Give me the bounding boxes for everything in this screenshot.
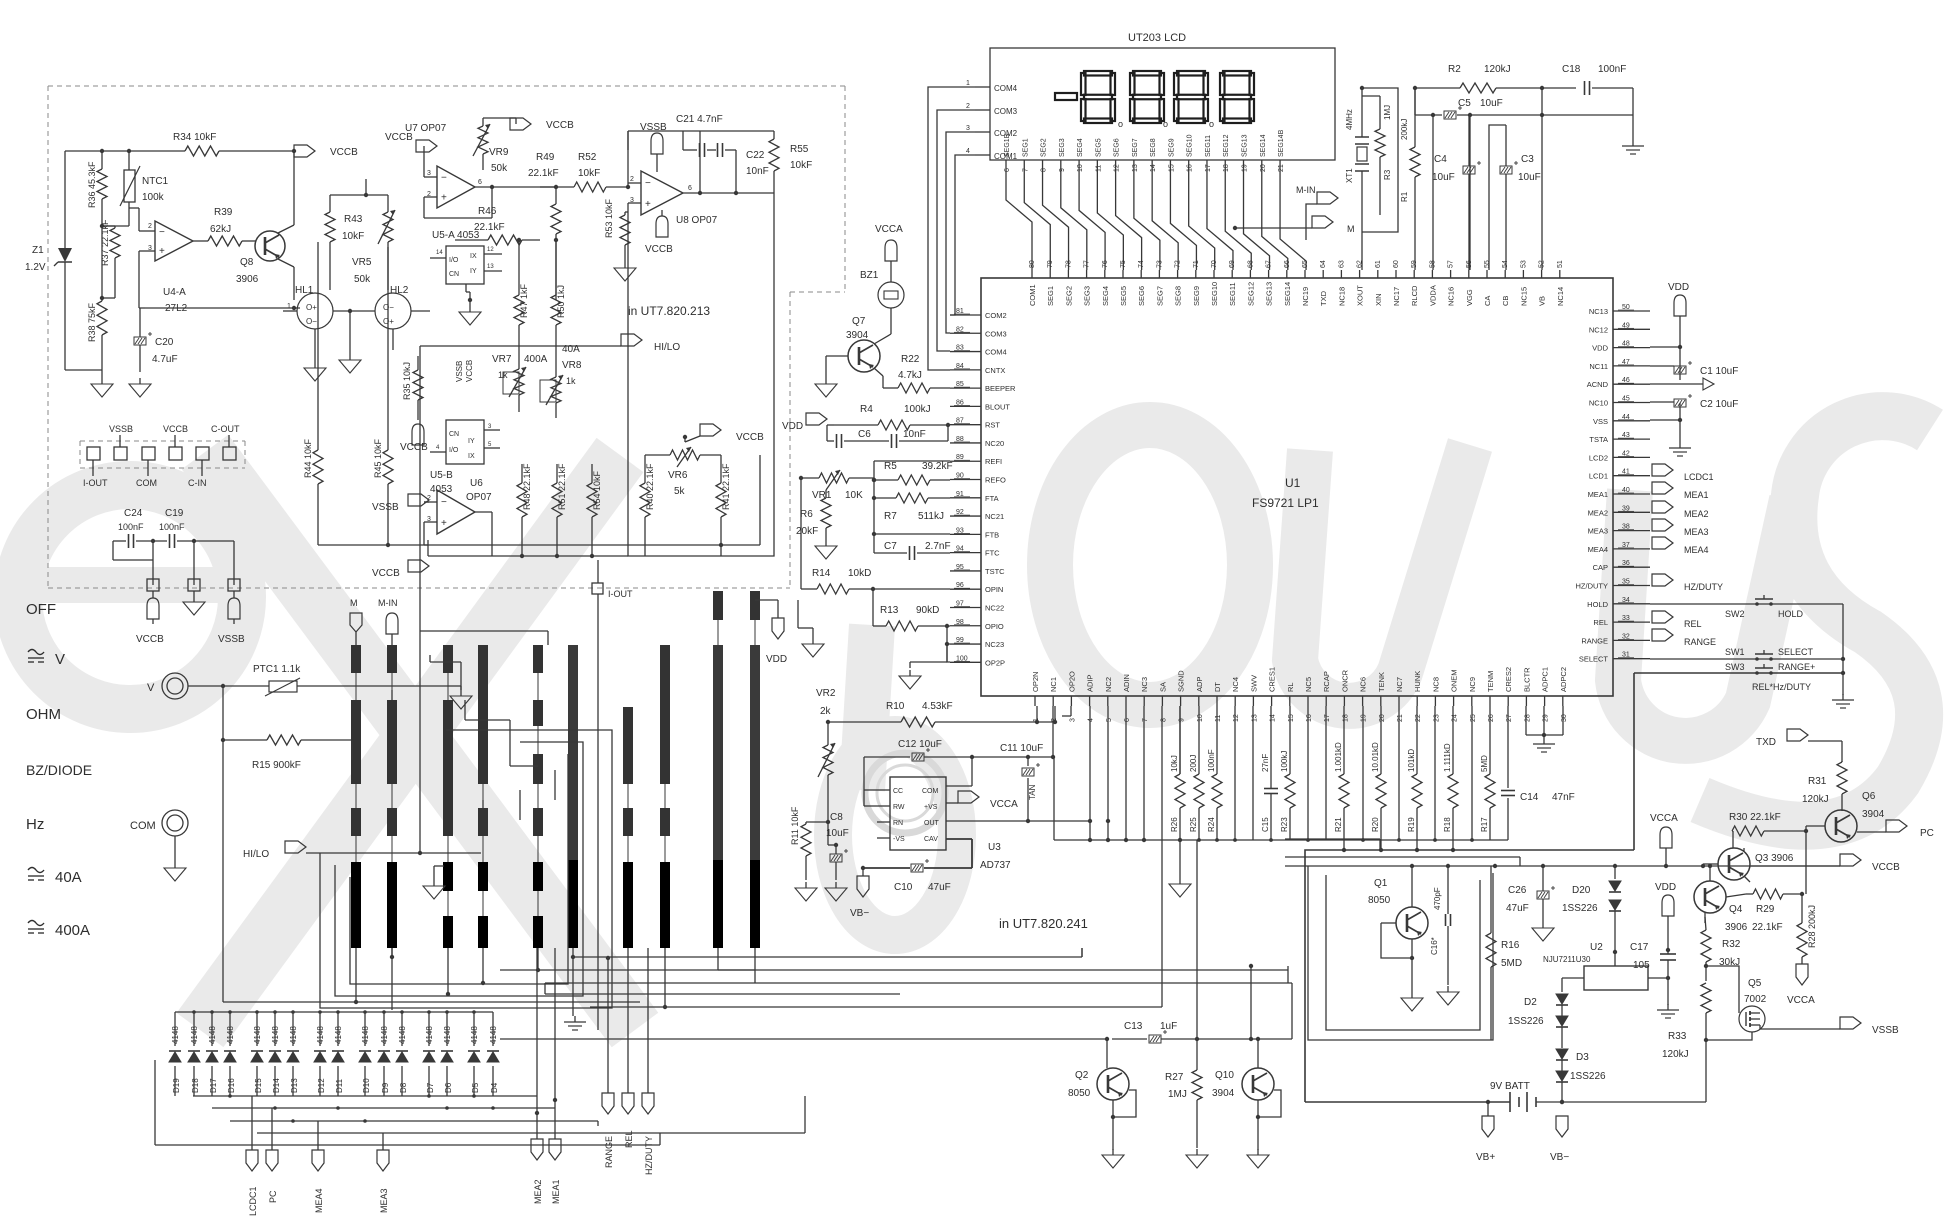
svg-text:VDD: VDD	[1592, 344, 1608, 353]
svg-text:3904: 3904	[846, 330, 869, 341]
wire	[910, 626, 950, 668]
resistor R36 45.3kF	[87, 149, 107, 228]
svg-text:VCCB: VCCB	[736, 432, 764, 443]
svg-text:PC: PC	[1920, 828, 1934, 839]
svg-text:VCCB: VCCB	[163, 424, 188, 434]
svg-text:HZ/DUTY: HZ/DUTY	[1576, 582, 1609, 591]
zener Z1 1.2V	[25, 240, 72, 275]
svg-text:64: 64	[1320, 260, 1327, 268]
svg-text:4148: 4148	[489, 1026, 498, 1044]
connector VDD near switch	[755, 600, 787, 665]
svg-text:1MJ: 1MJ	[1168, 1089, 1187, 1100]
wire	[335, 742, 583, 996]
svg-text:511kJ: 511kJ	[918, 511, 944, 522]
svg-text:C3: C3	[1521, 154, 1534, 165]
U1 bottom pins 1-30	[1031, 667, 1568, 722]
svg-text:REL: REL	[1593, 618, 1608, 627]
svg-text:NTC1: NTC1	[142, 176, 169, 187]
svg-text:9: 9	[1059, 168, 1066, 172]
resistor R44 10kF	[303, 242, 323, 545]
svg-text:17: 17	[1324, 714, 1331, 722]
svg-text:I/O: I/O	[449, 447, 459, 454]
svg-text:I/O: I/O	[449, 257, 459, 264]
wire	[864, 755, 974, 806]
svg-text:4148: 4148	[470, 1026, 479, 1044]
svg-text:NJU7211U30: NJU7211U30	[1543, 955, 1591, 964]
svg-text:C15: C15	[1261, 817, 1270, 832]
watermark	[18, 416, 1930, 1030]
svg-text:NC16: NC16	[1447, 287, 1456, 306]
svg-text:OP2O: OP2O	[1067, 671, 1076, 692]
ground	[459, 300, 481, 325]
svg-text:4148: 4148	[425, 1026, 434, 1044]
switch SW2 HOLD	[1650, 595, 1843, 695]
wire REL*Hz/DUTY route	[1285, 839, 1634, 1102]
ground	[815, 540, 837, 559]
svg-text:C17: C17	[1630, 942, 1649, 953]
svg-text:21: 21	[1278, 164, 1285, 172]
svg-text:CA: CA	[1483, 296, 1492, 306]
svg-text:8050: 8050	[1068, 1088, 1091, 1099]
svg-text:I-OUT: I-OUT	[83, 478, 108, 488]
svg-text:90kD: 90kD	[916, 605, 939, 616]
svg-text:7: 7	[1142, 718, 1149, 722]
svg-text:Q7: Q7	[852, 316, 866, 327]
transistor Q1 8050	[1368, 864, 1428, 958]
resistor R7 511kJ	[874, 493, 950, 522]
svg-text:4148: 4148	[380, 1026, 389, 1044]
svg-text:VDD: VDD	[766, 654, 787, 665]
svg-text:4.7uF: 4.7uF	[152, 354, 178, 365]
svg-text:3: 3	[427, 170, 431, 177]
svg-text:12: 12	[1233, 714, 1240, 722]
ground	[614, 258, 636, 281]
svg-text:D17: D17	[209, 1078, 218, 1093]
svg-text:R22: R22	[901, 354, 920, 365]
svg-text:C22: C22	[746, 150, 765, 161]
svg-text:470pF: 470pF	[1433, 887, 1442, 910]
svg-text:R4: R4	[860, 404, 873, 415]
svg-text:VCCB: VCCB	[546, 120, 574, 131]
potentiometer VR5 50k	[330, 193, 395, 285]
svg-text:55: 55	[1484, 260, 1491, 268]
svg-text:CN: CN	[449, 271, 459, 278]
svg-text:R27: R27	[1165, 1072, 1184, 1083]
svg-text:COM1: COM1	[1028, 284, 1037, 306]
svg-text:−: −	[441, 497, 447, 508]
resistor R11 10kF	[790, 806, 830, 880]
wire REL line junctions	[1342, 840, 1455, 852]
svg-text:75: 75	[1120, 260, 1127, 268]
svg-text:SEG6: SEG6	[1137, 286, 1146, 306]
svg-text:ADPC2: ADPC2	[1559, 667, 1568, 692]
wire	[545, 983, 1292, 994]
LCD module UT203 outline	[990, 32, 1335, 160]
svg-text:SWV: SWV	[1249, 675, 1258, 692]
svg-text:NC17: NC17	[1392, 287, 1401, 306]
svg-text:12: 12	[487, 247, 494, 253]
svg-text:9V BATT: 9V BATT	[1490, 1081, 1530, 1092]
wire	[330, 179, 388, 290]
capacitor C2 10uF	[1650, 394, 1738, 410]
svg-text:R16: R16	[1501, 940, 1520, 951]
svg-text:U2: U2	[1590, 942, 1603, 953]
svg-text:47nF: 47nF	[1552, 792, 1575, 803]
diode array D4-D19 1SS4148	[169, 1012, 499, 1096]
svg-text:R19: R19	[1407, 817, 1416, 832]
potentiometer VR7 1k	[492, 354, 526, 412]
svg-text:5: 5	[1106, 718, 1113, 722]
svg-text:30: 30	[1561, 714, 1568, 722]
svg-text:13: 13	[1132, 164, 1139, 172]
svg-text:SEG5: SEG5	[1095, 138, 1102, 157]
svg-text:1MJ: 1MJ	[1383, 105, 1392, 120]
wire	[113, 539, 234, 585]
svg-text:MEA1: MEA1	[551, 1179, 561, 1204]
svg-text:in UT7.820.213: in UT7.820.213	[628, 304, 710, 318]
resistor R43 10kF	[325, 195, 364, 270]
svg-text:R25: R25	[1189, 817, 1198, 832]
U1 right pins 50-31	[1576, 304, 1651, 664]
svg-text:M: M	[350, 598, 358, 608]
svg-text:I-OUT: I-OUT	[608, 589, 633, 599]
svg-text:SEG2: SEG2	[1041, 138, 1048, 157]
transistor Q8 3906	[236, 151, 294, 300]
svg-text:o: o	[1118, 119, 1123, 129]
svg-text:66: 66	[1284, 260, 1291, 268]
ground	[1169, 838, 1191, 897]
svg-text:17: 17	[1205, 164, 1212, 172]
label OFF	[26, 601, 56, 618]
svg-text:63: 63	[1338, 260, 1345, 268]
resistor R30 22.1kF	[1729, 812, 1806, 894]
svg-text:Q1: Q1	[1374, 878, 1388, 889]
wire	[718, 948, 755, 983]
svg-text:C-IN: C-IN	[188, 478, 207, 488]
ground	[129, 378, 151, 397]
connector REL	[1652, 611, 1702, 629]
wire	[1285, 857, 1520, 866]
connector MEA2	[1652, 501, 1709, 519]
resistor R29 22.1kF	[1746, 889, 1804, 933]
connector VSSB	[640, 122, 667, 172]
svg-text:NC15: NC15	[1519, 287, 1528, 306]
svg-text:MEA2: MEA2	[1588, 508, 1608, 517]
svg-text:3: 3	[630, 197, 634, 204]
diode array labels	[171, 1026, 499, 1093]
svg-text:R11 10kF: R11 10kF	[790, 806, 800, 845]
svg-text:NC6: NC6	[1359, 677, 1368, 692]
connector VSSB	[372, 494, 429, 513]
svg-text:+: +	[645, 199, 651, 210]
svg-text:D19: D19	[172, 1078, 181, 1093]
svg-text:PC: PC	[268, 1190, 278, 1203]
svg-text:NC21: NC21	[985, 512, 1004, 521]
svg-text:1.001kD: 1.001kD	[1334, 742, 1343, 772]
connector HZ/DUTY	[642, 1093, 654, 1175]
op-amp U4-A 27L2	[129, 208, 193, 314]
svg-text:LCD2: LCD2	[1589, 453, 1608, 462]
svg-text:NC8: NC8	[1431, 677, 1440, 692]
svg-text:TENK: TENK	[1377, 672, 1386, 692]
svg-text:OP2N: OP2N	[1031, 672, 1040, 692]
transistor Q4 3906	[1694, 864, 1748, 933]
svg-text:NC23: NC23	[985, 640, 1004, 649]
svg-text:1SS226: 1SS226	[1562, 903, 1598, 914]
dashed 6-pin header block	[80, 441, 245, 468]
svg-text:ADP: ADP	[1195, 677, 1204, 692]
svg-text:100nF: 100nF	[1207, 749, 1216, 772]
svg-text:M-IN: M-IN	[378, 598, 398, 608]
svg-text:OHM: OHM	[26, 706, 61, 723]
resistor R38 75kF	[87, 226, 107, 370]
label ~40A	[28, 868, 82, 887]
svg-text:2: 2	[966, 103, 970, 110]
svg-text:VCCB: VCCB	[465, 360, 474, 382]
ground	[430, 655, 472, 709]
connector PC	[266, 1150, 278, 1203]
node I-OUT	[592, 560, 633, 1030]
svg-text:47uF: 47uF	[928, 882, 951, 893]
svg-text:2.7nF: 2.7nF	[925, 541, 951, 552]
svg-text:COM: COM	[130, 820, 156, 832]
svg-text:D20: D20	[1572, 885, 1591, 896]
svg-text:C2 10uF: C2 10uF	[1700, 399, 1738, 410]
ground	[339, 311, 361, 373]
ground	[1650, 403, 1691, 456]
svg-text:R26: R26	[1170, 817, 1179, 832]
svg-text:CN: CN	[449, 431, 459, 438]
svg-text:R46: R46	[478, 206, 497, 217]
svg-text:NC13: NC13	[1589, 307, 1608, 316]
svg-text:56: 56	[1466, 260, 1473, 268]
svg-text:BZ1: BZ1	[860, 270, 879, 281]
svg-text:SEG11: SEG11	[1228, 282, 1237, 306]
svg-text:C5: C5	[1458, 98, 1471, 109]
connector MEA3	[377, 1150, 389, 1213]
connector LCDC1	[246, 1150, 258, 1216]
svg-text:C6: C6	[858, 429, 871, 440]
svg-text:VGG: VGG	[1465, 289, 1474, 306]
connector HZ/DUTY	[1652, 574, 1723, 592]
svg-text:CRES1: CRES1	[1268, 667, 1277, 692]
svg-text:NC4: NC4	[1231, 677, 1240, 692]
svg-text:SEG11: SEG11	[1205, 135, 1212, 157]
connector VDD	[1655, 882, 1676, 952]
analog switch U5-A 4053	[430, 230, 502, 284]
svg-text:10.01kD: 10.01kD	[1371, 742, 1380, 772]
svg-text:R7: R7	[884, 511, 897, 522]
svg-text:18: 18	[1223, 164, 1230, 172]
wire	[1081, 948, 1083, 957]
svg-text:ACND: ACND	[1587, 380, 1609, 389]
svg-text:22.1kF: 22.1kF	[1752, 922, 1783, 933]
svg-text:4148: 4148	[443, 1026, 452, 1044]
capacitor C18 100nF	[1562, 64, 1633, 95]
svg-text:R10: R10	[886, 701, 905, 712]
svg-text:NC9: NC9	[1468, 677, 1477, 692]
resistor R32 30kJ	[1701, 917, 1741, 981]
svg-text:VCCB: VCCB	[372, 568, 400, 579]
resistor R39 62kJ	[193, 207, 256, 246]
wire	[424, 540, 428, 556]
svg-text:O−: O−	[306, 317, 317, 326]
svg-text:V: V	[55, 651, 65, 668]
svg-text:C12 10uF: C12 10uF	[898, 739, 942, 750]
analog switch U5-B 4053	[430, 420, 500, 495]
svg-text:D13: D13	[290, 1078, 299, 1093]
mixer HL2	[348, 285, 430, 350]
svg-text:C18: C18	[1562, 64, 1581, 75]
connector MEA1	[549, 1100, 561, 1204]
svg-text:MEA3: MEA3	[1684, 527, 1709, 537]
connector VCCB	[385, 132, 437, 152]
input jack V	[147, 673, 188, 699]
svg-text:76: 76	[1102, 260, 1109, 268]
resistor R53 10kF	[604, 198, 630, 258]
svg-text:R45 10kF: R45 10kF	[373, 438, 383, 478]
svg-text:D4: D4	[490, 1082, 499, 1093]
svg-text:3: 3	[966, 125, 970, 132]
resistor R48 22.1kF	[517, 463, 532, 556]
svg-text:RST: RST	[985, 421, 1000, 430]
buzzer BZ1	[860, 270, 904, 330]
connector VCCA	[1787, 964, 1815, 1006]
svg-text:OUT: OUT	[924, 820, 940, 827]
svg-text:SEG3: SEG3	[1059, 138, 1066, 157]
svg-text:6: 6	[1124, 718, 1131, 722]
svg-text:NC5: NC5	[1304, 677, 1313, 692]
capacitor C3 10uF	[1489, 125, 1541, 270]
svg-text:27nF: 27nF	[1261, 754, 1270, 772]
svg-text:27: 27	[1506, 714, 1513, 722]
svg-text:MEA2: MEA2	[533, 1179, 543, 1204]
svg-text:VDD: VDD	[1655, 882, 1676, 893]
wire VDD pin48	[1650, 345, 1682, 349]
svg-text:VCCB: VCCB	[330, 147, 358, 158]
svg-text:MEA4: MEA4	[1684, 545, 1709, 555]
svg-text:15: 15	[1288, 714, 1295, 722]
svg-text:REL: REL	[1684, 619, 1702, 629]
connector VCCB	[685, 424, 764, 443]
LCD digit 1	[1081, 71, 1115, 123]
resistor R49 22.1kF	[528, 152, 561, 300]
svg-text:Q2: Q2	[1075, 1070, 1089, 1081]
svg-text:4148: 4148	[398, 1026, 407, 1044]
svg-text:11: 11	[1215, 715, 1222, 722]
svg-text:NC12: NC12	[1589, 325, 1608, 334]
wire	[102, 306, 300, 378]
label Hz	[26, 816, 44, 833]
svg-text:SEG9: SEG9	[1168, 138, 1175, 157]
diode D2 1SS226	[1508, 994, 1568, 1048]
svg-text:73: 73	[1156, 260, 1163, 268]
svg-text:Q6: Q6	[1862, 791, 1876, 802]
connector VCCB	[510, 118, 574, 131]
svg-text:12: 12	[1114, 164, 1121, 172]
svg-text:RN: RN	[893, 820, 903, 827]
wire outer loop of U8 stage	[628, 131, 774, 556]
ground	[798, 600, 824, 657]
ground	[1533, 738, 1555, 752]
svg-text:3: 3	[1069, 718, 1076, 722]
svg-text:69: 69	[1229, 260, 1236, 268]
svg-text:D10: D10	[362, 1078, 371, 1093]
svg-text:MEA4: MEA4	[1588, 545, 1608, 554]
connector TXD	[1756, 729, 1842, 762]
svg-text:Q10: Q10	[1215, 1070, 1234, 1081]
svg-text:54: 54	[1502, 260, 1509, 268]
svg-text:6: 6	[688, 185, 692, 192]
svg-text:20kF: 20kF	[796, 526, 818, 537]
svg-text:80: 80	[1029, 260, 1036, 268]
svg-text:SW3: SW3	[1725, 662, 1745, 672]
wire	[517, 238, 558, 292]
svg-text:SEG5: SEG5	[1119, 286, 1128, 306]
wire	[420, 346, 600, 853]
svg-text:RL: RL	[1286, 682, 1295, 692]
svg-text:100kJ: 100kJ	[1280, 751, 1289, 772]
svg-text:BLCTR: BLCTR	[1522, 667, 1531, 692]
svg-text:COM: COM	[136, 478, 157, 488]
wire	[500, 1037, 1147, 1041]
capacitor C13 1uF	[1124, 1021, 1292, 1043]
svg-text:XT1: XT1	[1345, 168, 1354, 183]
ground	[815, 356, 837, 397]
svg-text:C20: C20	[155, 337, 174, 348]
resistor R52 10kF	[492, 152, 630, 192]
svg-text:C26: C26	[1508, 885, 1527, 896]
svg-text:VSSB: VSSB	[455, 361, 464, 382]
svg-text:3904: 3904	[1212, 1088, 1235, 1099]
svg-text:MEA2: MEA2	[1684, 509, 1709, 519]
wire	[424, 146, 494, 218]
svg-text:57: 57	[1448, 260, 1455, 268]
transistor Q5 7002 MOSFET	[1704, 966, 1840, 1042]
label BZ/DIODE	[26, 762, 92, 778]
op-amp U8 OP07	[628, 171, 718, 226]
svg-text:74: 74	[1138, 260, 1145, 268]
svg-text:BZ/DIODE: BZ/DIODE	[26, 762, 92, 778]
svg-text:D15: D15	[254, 1078, 263, 1093]
connector RANGE	[1652, 629, 1716, 647]
wire	[65, 151, 102, 370]
ground	[423, 866, 445, 899]
svg-text:VCCA: VCCA	[875, 224, 903, 235]
svg-text:4053: 4053	[430, 484, 453, 495]
svg-text:R41 22.1kF: R41 22.1kF	[721, 463, 731, 510]
label ~V	[28, 650, 65, 669]
label VCCB	[163, 424, 188, 447]
svg-text:200J: 200J	[1189, 755, 1198, 772]
wire	[545, 993, 900, 995]
ground	[1102, 1149, 1124, 1168]
capacitor C8 10uF	[826, 812, 849, 880]
svg-text:10nF: 10nF	[903, 429, 926, 440]
connector M-IN	[1296, 185, 1338, 240]
svg-text:SEG10: SEG10	[1187, 134, 1194, 157]
svg-text:10: 10	[1077, 164, 1084, 172]
connector VSSB	[1840, 1017, 1899, 1036]
transistor Q2 8050	[1068, 1039, 1136, 1150]
capacitor C22 10nF	[718, 143, 769, 177]
svg-text:VCCB: VCCB	[645, 244, 673, 255]
wire COM lines LCD to chip	[928, 87, 975, 370]
svg-text:LCD1: LCD1	[1589, 472, 1608, 481]
svg-text:NC20: NC20	[985, 439, 1004, 448]
svg-text:REFI: REFI	[985, 457, 1002, 466]
ground	[91, 378, 113, 397]
